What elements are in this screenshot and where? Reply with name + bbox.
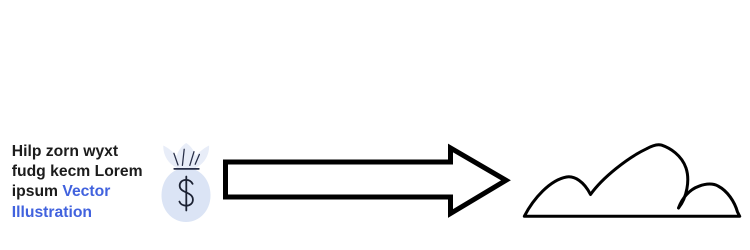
money bag middle petals [176,143,197,169]
tie band [174,168,199,170]
money bag left wing [163,146,182,169]
caption text block [12,142,143,223]
tick stroke right1 [190,152,194,166]
tick stroke left [174,153,178,165]
cloud [524,145,739,217]
money bag body [162,168,211,222]
tick stroke right2 [195,154,199,164]
money bag icon [162,143,211,222]
tick stroke middle [182,149,184,165]
money bag right wing [190,146,209,169]
dollar sign [179,177,193,211]
arrow [226,148,507,214]
